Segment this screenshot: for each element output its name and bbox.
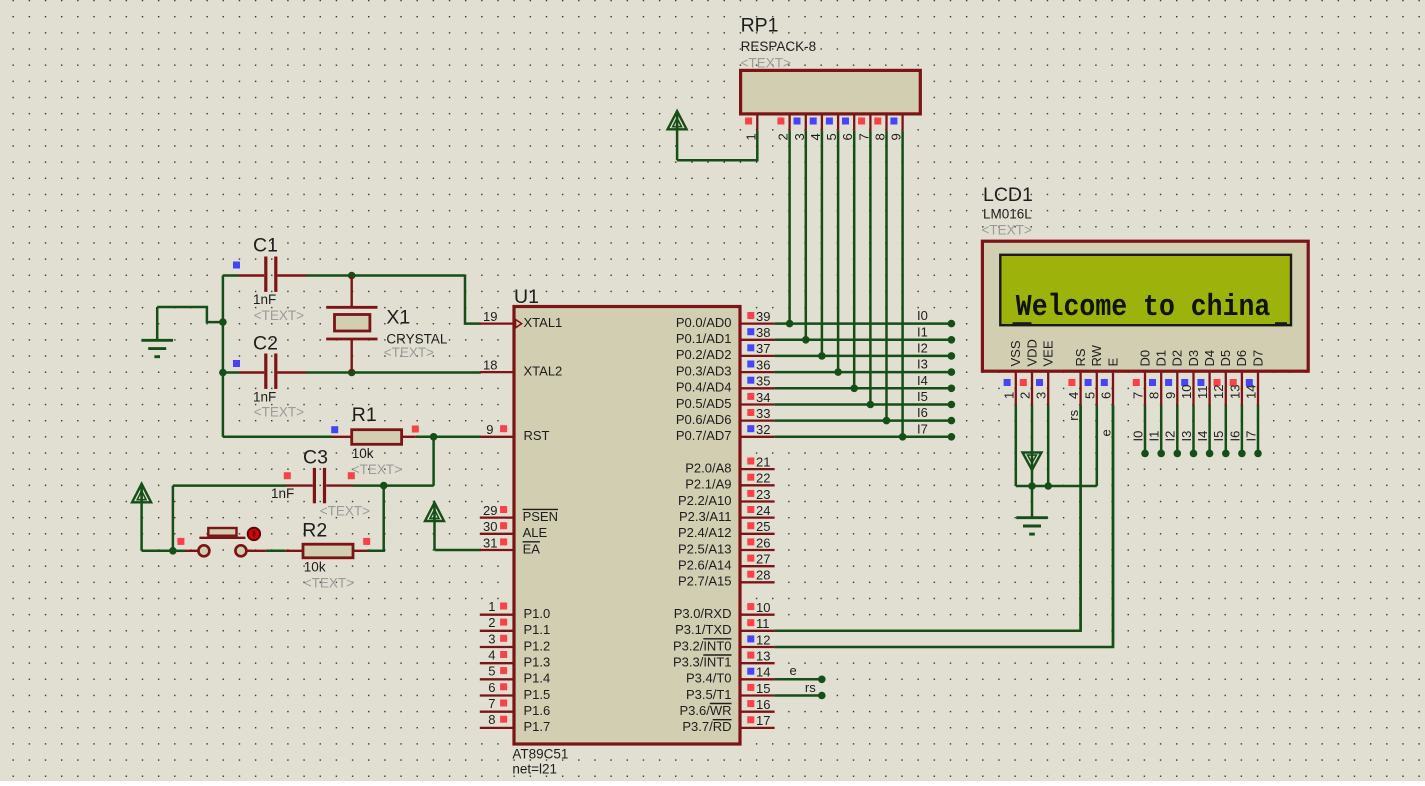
node I1 end (948, 336, 956, 344)
svg-text:<TEXT>: <TEXT> (741, 56, 791, 71)
pin 11 P3.1/TXD (675, 616, 774, 637)
net label I4 (917, 373, 928, 388)
svg-text:30: 30 (483, 519, 497, 534)
svg-text:EA: EA (523, 541, 541, 556)
svg-text:XTAL1: XTAL1 (524, 315, 563, 330)
pin 33 P0.6/AD6 (676, 406, 775, 427)
svg-text:<TEXT>: <TEXT> (982, 223, 1032, 238)
svg-text:rs: rs (1066, 409, 1081, 420)
svg-text:2: 2 (488, 615, 495, 630)
pin 24 P2.3/A11 (679, 503, 775, 524)
power terminal (EA pin 31) (425, 503, 444, 550)
capacitor C1 (233, 234, 306, 323)
svg-text:PSEN: PSEN (523, 509, 558, 524)
wire net I6: P0.6 to RP1 pin 8 (775, 131, 952, 421)
pin 7 P1.6 (480, 696, 550, 718)
svg-text:P2.5/A13: P2.5/A13 (678, 541, 732, 556)
LCD pin 2 VDD (1018, 339, 1040, 405)
net label I7 (917, 421, 928, 436)
svg-text:P3.2/INT0: P3.2/INT0 (673, 638, 732, 653)
svg-text:P3.5/T1: P3.5/T1 (686, 687, 732, 702)
LCD pin 9 D2 (1163, 350, 1185, 405)
svg-text:P1.1: P1.1 (524, 622, 551, 637)
wire: C3 left down to button row (172, 486, 175, 551)
svg-text:I3: I3 (917, 357, 928, 372)
svg-text:I6: I6 (1227, 431, 1242, 442)
svg-text:8: 8 (488, 712, 495, 727)
svg-text:9: 9 (486, 422, 493, 437)
svg-text:LCD1: LCD1 (983, 184, 1033, 206)
node: junction C3/R2 riser (380, 482, 388, 490)
net label I2 (917, 340, 928, 355)
svg-text:I5: I5 (917, 389, 928, 404)
wire net e stub at P3.4 (775, 663, 826, 683)
RP1 pin 1 (743, 114, 758, 141)
node: junction RP1 pin 2 / I0 (786, 320, 794, 328)
RP1 pin 3 (792, 114, 807, 141)
svg-text:<TEXT>: <TEXT> (320, 504, 370, 519)
svg-text:ALE: ALE (523, 525, 548, 540)
svg-text:14: 14 (756, 665, 770, 680)
svg-text:P0.7/AD7: P0.7/AD7 (676, 428, 732, 443)
LCD pin 3 VEE (1034, 340, 1056, 405)
node I4 end (948, 385, 956, 393)
pin 8 P1.7 (480, 712, 550, 734)
svg-text:C3: C3 (303, 447, 328, 469)
svg-text:I7: I7 (1244, 431, 1259, 442)
svg-text:18: 18 (483, 357, 497, 372)
svg-text:4: 4 (1066, 392, 1081, 399)
svg-text:1: 1 (488, 599, 495, 614)
svg-text:I3: I3 (1179, 431, 1194, 442)
pin 16 P3.6/WR (679, 697, 774, 718)
svg-text:24: 24 (756, 503, 770, 518)
svg-text:U1: U1 (514, 286, 539, 308)
svg-text:13: 13 (756, 649, 770, 664)
svg-text:2: 2 (1018, 392, 1033, 399)
svg-text:Welcome to china: Welcome to china (1016, 290, 1271, 325)
wire net RST: left bus to R1 to chip pin 9 (223, 436, 481, 439)
node: junction RP1 pin 7 / I5 (867, 401, 875, 409)
svg-text:P0.6/AD6: P0.6/AD6 (676, 412, 732, 427)
resistor R1 (331, 404, 419, 477)
svg-text:P2.0/A8: P2.0/A8 (685, 460, 731, 475)
wire net rs stub at P3.5 (775, 680, 826, 699)
wire: C3 row down to R2 right (367, 486, 384, 551)
svg-text:C1: C1 (253, 234, 278, 256)
svg-text:33: 33 (756, 406, 770, 421)
pin 10 P3.0/RXD (674, 600, 775, 621)
svg-text:10k: 10k (352, 446, 374, 461)
svg-text:P3.3/INT1: P3.3/INT1 (673, 655, 732, 670)
svg-text:VDD: VDD (1024, 339, 1039, 366)
svg-text:P2.4/A12: P2.4/A12 (678, 525, 732, 540)
net label I6 (917, 405, 928, 420)
wire: ground connection jog (157, 307, 223, 322)
LCD pin 13 D6 (1227, 350, 1249, 405)
svg-text:RS: RS (1073, 348, 1088, 366)
svg-text:6: 6 (488, 680, 495, 695)
svg-text:P1.6: P1.6 (524, 703, 551, 718)
wire net I1: P0.1 to RP1 pin 3 (775, 131, 952, 340)
svg-text:e: e (1098, 429, 1113, 436)
wire net XTAL1: C1 to crystal to chip pin 19 (223, 276, 481, 324)
push button (reset) (173, 528, 266, 557)
svg-text:P3.0/RXD: P3.0/RXD (674, 606, 732, 621)
svg-text:AT89C51: AT89C51 (512, 746, 568, 761)
power terminal (left, near button) (132, 484, 151, 551)
svg-text:10: 10 (756, 600, 770, 615)
LCD pin 4 RS (1066, 348, 1088, 405)
svg-text:I7: I7 (917, 421, 928, 436)
LCD pin 8 D1 (1147, 350, 1169, 405)
pin 12 P3.2/INT0 (673, 632, 775, 653)
svg-text:P1.4: P1.4 (524, 671, 551, 686)
node: junction RP1 pin 3 / I1 (802, 336, 810, 344)
svg-text:34: 34 (756, 390, 770, 405)
svg-text:P1.3: P1.3 (524, 655, 551, 670)
svg-text:P3.4/T0: P3.4/T0 (686, 671, 732, 686)
svg-text:4: 4 (488, 648, 495, 663)
pin 22 P2.1/A9 (685, 471, 774, 492)
svg-text:11: 11 (756, 616, 770, 631)
svg-text:1: 1 (1001, 392, 1016, 399)
power terminal (LCD VDD, pointing down) (1023, 453, 1042, 471)
pin 36 P0.3/AD3 (676, 357, 775, 378)
svg-text:35: 35 (756, 374, 770, 389)
pin 23 P2.2/A10 (678, 487, 775, 508)
wire net I1: LCD D1 (1147, 405, 1165, 457)
svg-text:39: 39 (756, 309, 770, 324)
ground (LCD) (1016, 486, 1048, 534)
svg-text:P0.1/AD1: P0.1/AD1 (676, 331, 732, 346)
node I0 end (948, 320, 956, 328)
svg-text:14: 14 (1244, 385, 1259, 399)
svg-text:VEE: VEE (1041, 340, 1056, 366)
node: junction crystal bottom/C2 row (348, 369, 356, 377)
wire net I7: P0.7 to RP1 pin 9 (775, 131, 952, 437)
svg-text:5: 5 (1082, 392, 1097, 399)
node I6 end (948, 417, 956, 425)
svg-text:3: 3 (488, 631, 495, 646)
svg-text:XTAL2: XTAL2 (524, 363, 563, 378)
pin 17 P3.7/RD (682, 713, 774, 734)
svg-text:P2.6/A14: P2.6/A14 (678, 558, 732, 573)
node: junction ground/left bus (219, 318, 227, 326)
svg-text:1nF: 1nF (253, 390, 276, 405)
wire net I0: LCD D0 (1130, 405, 1148, 457)
svg-text:RESPACK-8: RESPACK-8 (741, 39, 817, 54)
svg-text:10: 10 (1179, 385, 1194, 399)
svg-text:8: 8 (1147, 392, 1162, 399)
svg-text:P3.6/WR: P3.6/WR (679, 703, 731, 718)
wire net I6: LCD D6 (1227, 405, 1245, 457)
svg-text:P2.3/A11: P2.3/A11 (679, 509, 732, 524)
wire: LCD RS down (1066, 405, 1081, 631)
svg-text:16: 16 (756, 697, 770, 712)
svg-text:P2.1/A9: P2.1/A9 (685, 477, 731, 492)
LCD pin 14 D7 (1244, 350, 1266, 405)
pin 6 P1.5 (480, 680, 550, 702)
wire net C3 row (173, 484, 434, 487)
svg-text:P1.2: P1.2 (524, 638, 551, 653)
svg-text:P0.5/AD5: P0.5/AD5 (676, 396, 732, 411)
node I5 end (948, 401, 956, 409)
wire net I3: LCD D3 (1179, 405, 1197, 457)
pin 30 ALE (480, 519, 548, 540)
svg-text:I2: I2 (917, 340, 928, 355)
svg-text:<TEXT>: <TEXT> (254, 308, 304, 323)
svg-text:D5: D5 (1218, 350, 1233, 367)
svg-text:9: 9 (1163, 392, 1178, 399)
svg-text:36: 36 (756, 357, 770, 372)
svg-text:D3: D3 (1186, 350, 1201, 367)
svg-text:I5: I5 (1211, 431, 1226, 442)
wire net XTAL2: C2 to crystal to chip pin 18 (223, 371, 481, 374)
node: junction RP1 pin 6 / I4 (850, 385, 858, 393)
svg-text:LM016L: LM016L (983, 207, 1032, 222)
node: junction VDD/gnd rail (1028, 482, 1036, 490)
wire net GND: LCD VSS/VDD/VEE/RW tie (1016, 405, 1097, 486)
pin 18 XTAL2 (480, 357, 562, 378)
wire net I5: P0.5 to RP1 pin 7 (775, 131, 952, 405)
LCD pin 6 E (1099, 358, 1121, 406)
RP1 pin 4 (808, 114, 823, 141)
node: junction C2/left bus (219, 369, 227, 377)
wire: left vertical bus C1-C2-R1 (222, 276, 225, 437)
svg-text:3: 3 (1034, 392, 1049, 399)
pin 3 P1.2 (480, 631, 550, 653)
svg-text:I0: I0 (917, 308, 928, 323)
wire: R1 junction down to C3 row (432, 437, 435, 486)
LCD display LCD1 LM016L (982, 184, 1309, 371)
LCD screen (1000, 255, 1291, 325)
node: junction RP1 pin 5 / I3 (834, 368, 842, 376)
RP1 pin 8 (873, 114, 888, 141)
LCD pin 5 RW (1082, 344, 1104, 405)
wire net e: P3.2/INT0 to LCD E (775, 405, 1113, 647)
node I7 end (948, 433, 956, 441)
svg-text:P3.1/TXD: P3.1/TXD (675, 622, 731, 637)
net label I1 (917, 324, 928, 339)
node: junction RP1 pin 8 / I6 (883, 417, 891, 425)
svg-text:P2.2/A10: P2.2/A10 (678, 493, 732, 508)
svg-text:D7: D7 (1250, 350, 1265, 367)
pin 19 XTAL1 (480, 309, 562, 330)
LCD pin 12 D5 (1211, 350, 1233, 405)
svg-text:net=l21: net=l21 (512, 762, 557, 777)
svg-text:5: 5 (488, 664, 495, 679)
wire: button to R2 (266, 550, 285, 553)
pin 39 P0.0/AD0 (676, 309, 775, 330)
pin 27 P2.6/A14 (678, 552, 775, 573)
svg-text:C2: C2 (253, 333, 278, 355)
svg-text:<TEXT>: <TEXT> (384, 345, 434, 360)
svg-text:<TEXT>: <TEXT> (352, 462, 402, 477)
net label I0 (917, 308, 928, 323)
svg-text:23: 23 (756, 487, 770, 502)
svg-text:e: e (790, 663, 797, 678)
svg-text:R1: R1 (352, 404, 377, 426)
svg-text:E: E (1105, 358, 1120, 367)
node: junction RP1 pin 9 / I7 (899, 433, 907, 441)
svg-text:P1.0: P1.0 (524, 606, 551, 621)
svg-text:1nF: 1nF (253, 292, 276, 307)
pin 13 P3.3/INT1 (673, 649, 775, 670)
svg-text:<TEXT>: <TEXT> (304, 575, 354, 590)
pin 5 P1.4 (480, 664, 550, 686)
svg-text:I1: I1 (917, 324, 928, 339)
svg-text:D0: D0 (1137, 350, 1152, 367)
svg-text:P3.7/RD: P3.7/RD (682, 719, 731, 734)
svg-text:37: 37 (756, 341, 770, 356)
svg-text:17: 17 (756, 713, 770, 728)
wire net I0: P0.0 to RP1 pin 2 (775, 131, 952, 324)
pin 29 PSEN (480, 503, 558, 524)
svg-text:21: 21 (756, 454, 770, 469)
svg-text:X1: X1 (386, 306, 410, 328)
svg-text:D4: D4 (1202, 350, 1217, 367)
RP1 pin 5 (824, 114, 839, 141)
pin 34 P0.5/AD5 (676, 390, 775, 411)
node: junction C1/crystal top (348, 272, 356, 280)
wire net I3: P0.3 to RP1 pin 5 (775, 131, 952, 373)
ground (left, near C1/C2) (141, 307, 173, 357)
LCD pin 10 D3 (1179, 350, 1201, 405)
node: junction VEE/gnd rail (1044, 482, 1052, 490)
svg-text:25: 25 (756, 519, 770, 534)
svg-text:RP1: RP1 (741, 15, 779, 37)
capacitor C3 (271, 447, 370, 519)
svg-text:D2: D2 (1170, 350, 1185, 367)
svg-text:I2: I2 (1163, 431, 1178, 442)
resistor pack RP1 RESPACK-8 (741, 15, 921, 114)
pin 28 P2.7/A15 (678, 568, 775, 589)
pin 14 P3.4/T0 (686, 665, 775, 686)
svg-text:32: 32 (756, 422, 770, 437)
pin 4 P1.3 (480, 648, 550, 670)
resistor R2 (285, 519, 370, 590)
wire net I2: LCD D2 (1163, 405, 1181, 457)
wire: LCD E down (1098, 405, 1113, 647)
power terminal (RP1 common) (668, 111, 687, 160)
wire: power arrow to button junction (142, 550, 173, 553)
svg-text:RST: RST (524, 428, 550, 443)
pin 35 P0.4/AD4 (676, 374, 775, 395)
svg-text:P0.2/AD2: P0.2/AD2 (676, 347, 732, 362)
svg-text:I4: I4 (1195, 431, 1210, 442)
node: junction RP1 pin 4 / I2 (818, 352, 826, 360)
svg-text:I0: I0 (1130, 431, 1145, 442)
pin 9 RST (480, 422, 550, 443)
svg-text:I4: I4 (917, 373, 928, 388)
svg-text:D6: D6 (1234, 350, 1249, 367)
RP1 pin 6 (840, 114, 855, 141)
svg-text:P1.7: P1.7 (524, 719, 551, 734)
svg-text:29: 29 (483, 503, 497, 518)
pin 26 P2.5/A13 (678, 535, 775, 556)
svg-text:VSS: VSS (1008, 340, 1023, 366)
pin 21 P2.0/A8 (685, 454, 774, 475)
node: junction R1/RST/C3 (430, 433, 438, 441)
pin 31 EA (480, 535, 540, 556)
wire net I4: LCD D4 (1195, 405, 1213, 457)
svg-text:D1: D1 (1154, 350, 1169, 367)
node I3 end (948, 368, 956, 376)
svg-text:1nF: 1nF (271, 486, 294, 501)
wire net I2: P0.2 to RP1 pin 4 (775, 131, 952, 356)
wire: power to EA pin (435, 549, 481, 552)
net label I3 (917, 357, 928, 372)
svg-text:27: 27 (756, 552, 770, 567)
pin 38 P0.1/AD1 (676, 325, 775, 346)
svg-text:12: 12 (756, 632, 770, 647)
RP1 pin 7 (856, 114, 871, 141)
svg-text:<TEXT>: <TEXT> (254, 404, 304, 419)
svg-text:RW: RW (1089, 344, 1104, 366)
wire net I4: P0.4 to RP1 pin 6 (775, 131, 952, 389)
svg-text:15: 15 (756, 681, 770, 696)
RP1 pin 2 (776, 114, 791, 141)
wire net I5: LCD D5 (1211, 405, 1229, 457)
svg-text:12: 12 (1211, 385, 1226, 399)
pin 32 P0.7/AD7 (676, 422, 775, 443)
pin 2 P1.1 (480, 615, 550, 637)
node I2 end (948, 352, 956, 360)
crystal X1 (326, 276, 448, 373)
svg-text:I1: I1 (1147, 431, 1162, 442)
svg-text:6: 6 (1099, 392, 1114, 399)
wire: power to RP1 pin 1 (677, 131, 757, 161)
svg-text:7: 7 (488, 696, 495, 711)
svg-text:19: 19 (483, 309, 497, 324)
op-amp U1 body (AT89C51 microcontroller) (512, 286, 740, 777)
svg-text:7: 7 (1131, 392, 1146, 399)
svg-text:38: 38 (756, 325, 770, 340)
svg-text:R2: R2 (302, 519, 327, 541)
svg-text:P0.4/AD4: P0.4/AD4 (676, 380, 732, 395)
svg-text:22: 22 (756, 471, 770, 486)
wire net I7: LCD D7 (1244, 405, 1262, 457)
RP1 pin 9 (889, 114, 904, 141)
svg-text:11: 11 (1195, 386, 1210, 400)
pin 25 P2.4/A12 (678, 519, 775, 540)
svg-text:13: 13 (1227, 385, 1242, 399)
LCD pin 11 D4 (1195, 350, 1217, 405)
svg-text:P1.5: P1.5 (524, 687, 551, 702)
svg-text:P0.0/AD0: P0.0/AD0 (676, 315, 732, 330)
svg-text:P0.3/AD3: P0.3/AD3 (676, 363, 732, 378)
svg-text:rs: rs (805, 680, 816, 695)
svg-text:31: 31 (483, 535, 497, 550)
svg-text:10k: 10k (304, 559, 326, 574)
svg-text:P2.7/A15: P2.7/A15 (678, 574, 732, 589)
LCD pin 7 D0 (1131, 350, 1153, 405)
net label I5 (917, 389, 928, 404)
wire net rs: P3.1/TXD to LCD RS (775, 405, 1081, 631)
pin 15 P3.5/T1 (686, 681, 775, 702)
capacitor C2 (233, 333, 306, 420)
svg-text:26: 26 (756, 535, 770, 550)
pin 37 P0.2/AD2 (676, 341, 775, 362)
svg-text:I6: I6 (917, 405, 928, 420)
node: junction button row (169, 547, 177, 555)
pin 1 P1.0 (480, 599, 550, 621)
svg-text:28: 28 (756, 568, 770, 583)
LCD pin 1 VSS (1001, 340, 1023, 405)
